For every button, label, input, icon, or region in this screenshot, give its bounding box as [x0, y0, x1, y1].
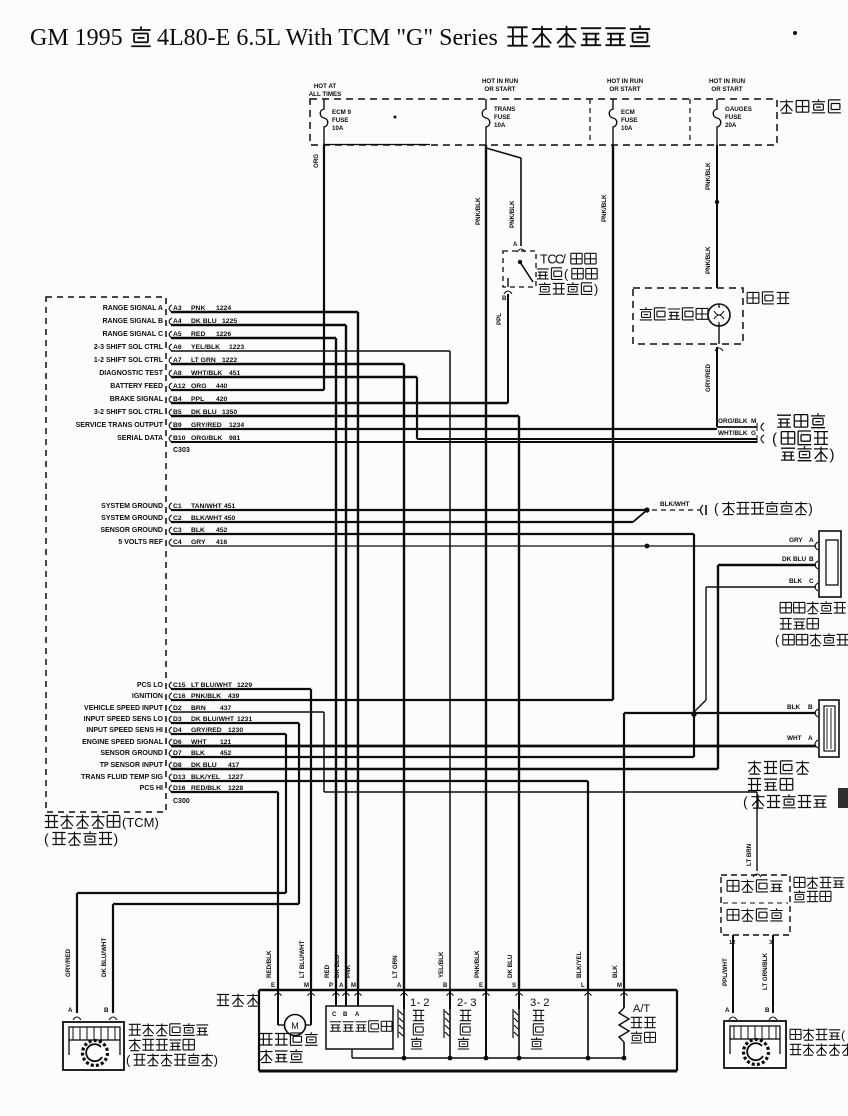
svg-text:DK BLU: DK BLU	[507, 954, 514, 978]
svg-text:C303: C303	[173, 447, 190, 454]
svg-text:ORG/BLK: ORG/BLK	[718, 418, 748, 425]
svg-text:D2: D2	[173, 705, 182, 712]
svg-text:A: A	[513, 242, 518, 248]
svg-text:(: (	[714, 501, 719, 516]
svg-text:B: B	[809, 556, 814, 563]
svg-text:GRY/RED: GRY/RED	[705, 364, 712, 392]
svg-text:DK BLU: DK BLU	[334, 954, 341, 978]
svg-text:1223: 1223	[229, 344, 244, 351]
svg-text:ORG/BLK: ORG/BLK	[191, 435, 222, 442]
svg-text:A6: A6	[173, 344, 182, 351]
svg-text:B: B	[443, 983, 448, 989]
svg-text:M: M	[617, 983, 622, 989]
svg-text:B: B	[765, 1007, 770, 1014]
svg-text:): )	[114, 831, 119, 847]
svg-text:YEL/BLK: YEL/BLK	[191, 344, 220, 351]
svg-text:PPL: PPL	[496, 313, 503, 325]
svg-text:OR START: OR START	[711, 86, 742, 93]
svg-text:2: 2	[543, 997, 549, 1009]
svg-text:C300: C300	[173, 798, 190, 805]
svg-text:PCS HI: PCS HI	[140, 785, 163, 792]
svg-text:ENGINE SPEED SIGNAL: ENGINE SPEED SIGNAL	[82, 739, 164, 746]
svg-text:PNK/BLK: PNK/BLK	[475, 197, 482, 225]
svg-text:FUSE: FUSE	[621, 117, 638, 124]
svg-text:WHT/BLK: WHT/BLK	[718, 430, 748, 437]
svg-text:ECM 9: ECM 9	[332, 109, 351, 116]
svg-text:10A: 10A	[494, 122, 506, 129]
svg-text:INPUT SPEED SENS HI: INPUT SPEED SENS HI	[86, 727, 163, 734]
svg-text:GRY/RED: GRY/RED	[65, 949, 72, 977]
svg-text:12: 12	[729, 940, 735, 946]
svg-text:M: M	[304, 983, 309, 989]
svg-text:C4: C4	[173, 539, 182, 546]
svg-text:LT GRN/BLK: LT GRN/BLK	[762, 952, 769, 990]
svg-text:5 VOLTS REF: 5 VOLTS REF	[118, 539, 163, 546]
svg-text:BLK: BLK	[789, 578, 803, 585]
svg-text:HOT AT: HOT AT	[314, 83, 337, 90]
svg-text:2: 2	[457, 997, 463, 1009]
svg-text:LT GRN: LT GRN	[392, 955, 399, 978]
svg-text:RED/BLK: RED/BLK	[266, 950, 273, 978]
svg-text:TRANS FLUID TEMP SIG: TRANS FLUID TEMP SIG	[81, 774, 163, 781]
svg-text:-: -	[464, 997, 468, 1009]
svg-text:): )	[830, 446, 835, 463]
svg-text:437: 437	[220, 705, 232, 712]
svg-text:S: S	[512, 983, 516, 989]
svg-text:TP SENSOR INPUT: TP SENSOR INPUT	[100, 762, 164, 769]
svg-text:YEL/BLK: YEL/BLK	[438, 951, 445, 978]
svg-text:PCS LO: PCS LO	[137, 682, 164, 689]
svg-text:A: A	[725, 1007, 730, 1014]
svg-text:BATTERY FEED: BATTERY FEED	[110, 383, 163, 390]
svg-text:GAUGES: GAUGES	[725, 106, 752, 113]
svg-text:PNK: PNK	[345, 964, 352, 978]
svg-text:FUSE: FUSE	[494, 114, 511, 121]
svg-text:(: (	[44, 831, 49, 847]
svg-text:A: A	[339, 983, 344, 989]
svg-text:PNK/BLK: PNK/BLK	[601, 194, 608, 222]
svg-text:E: E	[479, 983, 483, 989]
svg-text:A: A	[68, 1007, 73, 1014]
svg-text:RANGE SIGNAL C: RANGE SIGNAL C	[102, 331, 163, 338]
svg-text:BLK/YEL: BLK/YEL	[576, 951, 583, 978]
svg-text:ALL TIMES: ALL TIMES	[309, 91, 342, 98]
svg-text:RANGE SIGNAL A: RANGE SIGNAL A	[103, 305, 163, 312]
svg-text:SYSTEM GROUND: SYSTEM GROUND	[101, 503, 163, 510]
svg-text:IGNITION: IGNITION	[132, 693, 163, 700]
svg-text:B: B	[104, 1007, 109, 1014]
svg-text:GM 1995: GM 1995	[30, 25, 123, 51]
svg-text:3: 3	[530, 997, 536, 1009]
svg-text:WHT: WHT	[787, 735, 802, 742]
svg-text:VEHICLE SPEED INPUT: VEHICLE SPEED INPUT	[84, 705, 164, 712]
svg-text:1-2 SHIFT SOL CTRL: 1-2 SHIFT SOL CTRL	[94, 357, 164, 364]
svg-text:E: E	[271, 983, 275, 989]
svg-text:G: G	[751, 430, 756, 437]
svg-text:10A: 10A	[332, 125, 344, 132]
svg-text:L: L	[581, 983, 585, 989]
svg-text:BLK: BLK	[612, 965, 619, 978]
svg-text:BLK: BLK	[787, 704, 801, 711]
svg-text:/: /	[562, 252, 566, 266]
svg-text:B: B	[808, 704, 813, 711]
svg-text:M: M	[351, 983, 356, 989]
svg-text:BRAKE SIGNAL: BRAKE SIGNAL	[110, 396, 164, 403]
svg-text:HOT IN RUN: HOT IN RUN	[607, 78, 644, 85]
svg-text:C: C	[332, 1012, 337, 1018]
svg-text:SENSOR GROUND: SENSOR GROUND	[100, 527, 163, 534]
svg-text:): )	[808, 501, 813, 516]
svg-text:OR START: OR START	[609, 86, 640, 93]
svg-text:M: M	[291, 1021, 299, 1031]
svg-text:M: M	[751, 418, 756, 425]
svg-text:1: 1	[410, 997, 416, 1009]
svg-text:A: A	[808, 735, 813, 742]
svg-text:DK BLU/WHT: DK BLU/WHT	[101, 938, 108, 977]
svg-text:981: 981	[229, 435, 241, 442]
svg-text:HOT IN RUN: HOT IN RUN	[482, 78, 519, 85]
svg-text:2: 2	[423, 997, 429, 1009]
svg-text:TRANS: TRANS	[494, 106, 515, 113]
svg-text:LT BRN: LT BRN	[746, 843, 753, 866]
svg-text:INPUT SPEED SENS LO: INPUT SPEED SENS LO	[84, 716, 164, 723]
svg-text:A: A	[397, 983, 402, 989]
svg-text:): )	[214, 1053, 218, 1067]
svg-text:A/T: A/T	[633, 1003, 650, 1015]
svg-text:416: 416	[216, 539, 228, 546]
svg-text:GRY: GRY	[789, 537, 803, 544]
svg-text:P: P	[329, 983, 333, 989]
svg-text:PPL/WHT: PPL/WHT	[722, 958, 729, 986]
svg-text:BLK/WHT: BLK/WHT	[660, 501, 690, 508]
svg-text:BRN: BRN	[191, 705, 206, 712]
svg-text:C: C	[809, 578, 814, 585]
svg-text:HOT IN RUN: HOT IN RUN	[709, 78, 746, 85]
svg-text:B: B	[343, 1012, 348, 1018]
svg-text:DIAGNOSTIC TEST: DIAGNOSTIC TEST	[99, 370, 164, 377]
svg-text:A: A	[809, 537, 814, 544]
svg-text:ECM: ECM	[621, 109, 635, 116]
svg-text:SENSOR GROUND: SENSOR GROUND	[100, 750, 163, 757]
svg-text:2-3 SHIFT SOL CTRL: 2-3 SHIFT SOL CTRL	[94, 344, 164, 351]
svg-text:PNK/BLK: PNK/BLK	[705, 246, 712, 274]
svg-text:FUSE: FUSE	[725, 114, 742, 121]
svg-text:PNK/BLK: PNK/BLK	[705, 162, 712, 190]
svg-text:RED: RED	[324, 964, 331, 978]
svg-text:-: -	[417, 997, 421, 1009]
svg-text:PNK/BLK: PNK/BLK	[474, 950, 481, 978]
svg-text:A: A	[355, 1012, 360, 1018]
svg-text:-: -	[537, 997, 541, 1009]
svg-text:PNK/BLK: PNK/BLK	[509, 200, 516, 228]
svg-text:LT BLU/WHT: LT BLU/WHT	[299, 940, 306, 978]
svg-text:DK BLU: DK BLU	[782, 556, 807, 563]
svg-text:SYSTEM GROUND: SYSTEM GROUND	[101, 515, 163, 522]
svg-text:OR START: OR START	[484, 86, 515, 93]
svg-text:(: (	[772, 430, 777, 447]
svg-text:SERVICE TRANS OUTPUT: SERVICE TRANS OUTPUT	[76, 422, 164, 429]
svg-text:): )	[594, 282, 598, 296]
svg-text:FUSE: FUSE	[332, 117, 349, 124]
svg-text:RANGE SIGNAL B: RANGE SIGNAL B	[102, 318, 163, 325]
svg-text:B: B	[502, 296, 507, 302]
svg-text:(TCM): (TCM)	[122, 815, 159, 830]
svg-text:3: 3	[470, 997, 476, 1009]
svg-text:3-2 SHIFT SOL CTRL: 3-2 SHIFT SOL CTRL	[94, 409, 164, 416]
svg-text:4L80-E 6.5L With TCM "G" Serie: 4L80-E 6.5L With TCM "G" Series	[157, 25, 498, 51]
svg-text:SERIAL DATA: SERIAL DATA	[117, 435, 163, 442]
svg-text:10A: 10A	[621, 125, 633, 132]
svg-text:(: (	[743, 794, 748, 810]
svg-text:GRY: GRY	[191, 539, 206, 546]
svg-text:(: (	[841, 1028, 845, 1042]
svg-text:20A: 20A	[725, 122, 737, 129]
svg-text:ORG: ORG	[313, 154, 320, 168]
svg-text:B10: B10	[173, 435, 186, 442]
